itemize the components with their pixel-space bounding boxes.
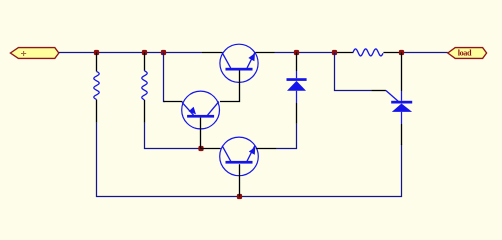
resistor R2 xyxy=(142,53,147,123)
wire rail J2-J3 xyxy=(145,52,164,54)
wire rail J4-J5 xyxy=(297,52,335,54)
pin D2 gate xyxy=(371,90,386,92)
junction J2 xyxy=(142,50,147,55)
junction J7 xyxy=(198,146,203,151)
junction J1 xyxy=(94,50,99,55)
wire R2 to J7 xyxy=(145,123,201,149)
inductor L1 xyxy=(353,49,383,56)
wire rail Q1-J4 xyxy=(275,52,297,54)
wire Q1 base to Q2 collector xyxy=(220,82,240,102)
transistor Q1 xyxy=(220,44,258,82)
pin Q1 collector xyxy=(202,52,223,54)
transistor Q3 xyxy=(220,137,259,196)
pin Q3 collector xyxy=(201,148,221,150)
junction J4 xyxy=(294,50,299,55)
wire rail J3-Q1 xyxy=(164,52,203,54)
pin Q1 emitter xyxy=(255,52,274,54)
resistor R1 xyxy=(94,53,99,123)
pin Q3 emitter xyxy=(256,148,277,150)
junction J6 xyxy=(399,50,404,55)
junction J8 xyxy=(237,194,242,199)
port P1 + xyxy=(10,48,58,59)
transistor Q2 xyxy=(182,91,220,148)
pin L1 right xyxy=(383,52,401,54)
wire D1 bottom corner xyxy=(277,123,297,148)
pin L1 left xyxy=(335,52,354,54)
wire bottom rail J8-right xyxy=(240,145,402,197)
port P2 load xyxy=(448,48,487,59)
wire rail J6-port xyxy=(402,52,448,54)
svg-text:load: load xyxy=(458,49,472,58)
junction J5 xyxy=(332,50,337,55)
thyristor D2 xyxy=(386,53,412,146)
wire J5 down to D2 gate xyxy=(335,53,372,91)
wire rail J1-J2 xyxy=(97,52,145,54)
wire rail port-J1 xyxy=(59,52,97,54)
pin Q2 emitter xyxy=(164,101,183,103)
junction J3 xyxy=(161,50,166,55)
wire R1 to bottom rail xyxy=(97,122,240,196)
diode D1 xyxy=(287,53,307,124)
wire J3 down to Q2 xyxy=(164,53,166,102)
